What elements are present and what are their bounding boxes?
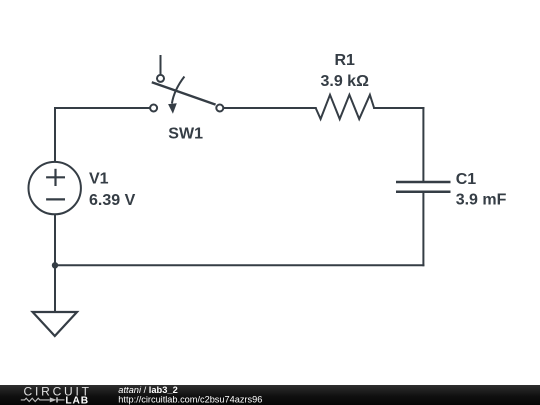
ground symbol [33, 312, 77, 336]
wire bottom horizontal [55, 264, 423, 266]
svg-text:SW1: SW1 [168, 126, 203, 143]
svg-text:R1: R1 [334, 52, 355, 69]
svg-text:3.9 kΩ: 3.9 kΩ [320, 73, 369, 90]
switch lever [152, 82, 216, 104]
wire switch top stub [160, 55, 162, 74]
wire switch to resistor [224, 107, 316, 109]
CircuitLab logo resistor-diode symbol [21, 397, 65, 402]
capacitor C1 [396, 182, 451, 192]
wire source bottom to junction [54, 215, 56, 266]
wire resistor to top-right corner [374, 107, 423, 109]
svg-text:http://circuitlab.com/c2bsu74a: http://circuitlab.com/c2bsu74azrs96 [118, 395, 262, 405]
voltage source V1 [29, 162, 81, 214]
switch right terminal circle [216, 105, 223, 112]
wire ground stem [54, 265, 56, 311]
svg-text:C1: C1 [456, 171, 477, 188]
svg-text:LAB: LAB [65, 395, 89, 405]
switch top terminal circle [157, 75, 164, 82]
wire right vertical upper [422, 108, 424, 182]
wire right vertical lower [422, 192, 424, 265]
switch left terminal circle [150, 105, 157, 112]
resistor R1 [316, 95, 374, 119]
switch arrow head [168, 103, 177, 114]
wire top-left horizontal [55, 107, 149, 109]
svg-text:V1: V1 [89, 171, 109, 188]
svg-text:3.9 mF: 3.9 mF [456, 192, 507, 209]
wire left vertical [54, 108, 56, 162]
switch SW1 [150, 55, 223, 114]
junction node dot [52, 263, 57, 268]
switch actuation arrow arc [172, 77, 185, 104]
svg-text:attani / lab3_2: attani / lab3_2 [118, 385, 177, 395]
svg-text:6.39 V: 6.39 V [89, 192, 136, 209]
